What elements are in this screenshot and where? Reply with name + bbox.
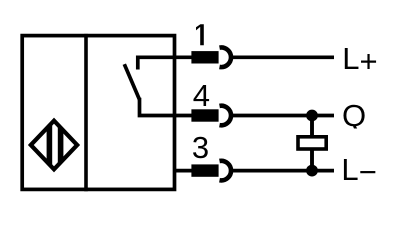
- wire L+: [233, 55, 335, 59]
- svg-text:−: −: [359, 154, 377, 189]
- node L- junction: [306, 165, 318, 177]
- wire L-: [233, 169, 335, 173]
- node Q junction: [306, 110, 318, 122]
- sensor body outline: [22, 36, 174, 190]
- svg-text:L: L: [342, 41, 359, 76]
- svg-text:+: +: [360, 44, 378, 79]
- proximity sensor symbol (diamond): [31, 120, 77, 170]
- pin 1 connector plug: [191, 51, 218, 63]
- svg-text:Q: Q: [342, 98, 366, 133]
- pin 3 connector plug: [191, 164, 218, 176]
- svg-text:3: 3: [192, 130, 209, 165]
- switch moving-terminal wire: [140, 98, 194, 116]
- svg-text:L: L: [341, 152, 358, 187]
- load resistor: [298, 137, 326, 149]
- pin 3 connector socket: [220, 161, 232, 181]
- wire Q: [233, 114, 335, 118]
- pin 4 connector socket: [220, 106, 232, 126]
- pin 4 connector plug: [191, 109, 218, 121]
- sensor body divider: [84, 34, 88, 191]
- switch blade (NO contact): [124, 64, 139, 99]
- wire pin3 from box: [173, 169, 193, 173]
- pin 1 label: [196, 24, 204, 45]
- switch contact fixed-terminal wire: [138, 57, 193, 69]
- load wire (vertical): [310, 116, 314, 171]
- pin 1 connector socket: [220, 47, 232, 67]
- svg-text:4: 4: [193, 78, 210, 113]
